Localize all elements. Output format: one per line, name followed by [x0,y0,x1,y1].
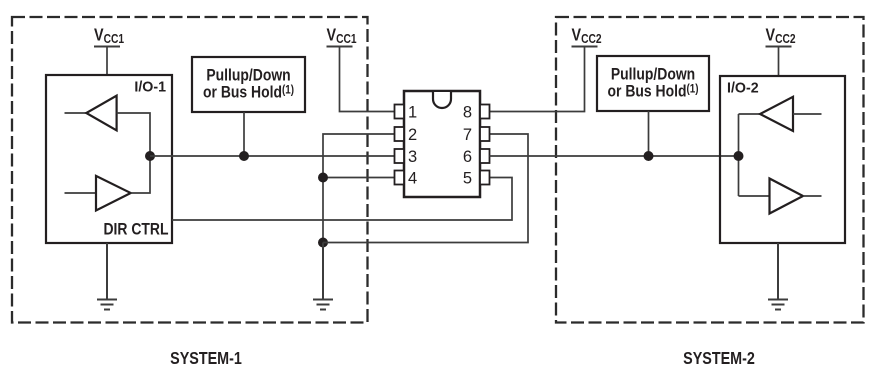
pin 3 [395,148,418,166]
wire A1 output to internal node [117,113,150,156]
ground (under I/O-2) [768,243,788,310]
node bus / pullup-2 junction dot [644,151,654,161]
pin 4 [395,170,418,188]
node pin4 junction dot [318,173,328,183]
pin 6 [463,148,490,166]
buffer A2 (driver, points right) [96,176,131,211]
power VCC2 (right, above I/O-2) [766,26,796,46]
power VCC1 (left, above I/O-1) [94,26,125,46]
pin 8 [463,104,490,122]
svg-text:5: 5 [463,170,472,188]
svg-text:6: 6 [463,148,472,166]
svg-text:VCC1: VCC1 [327,26,358,46]
svg-text:VCC2: VCC2 [572,26,602,46]
wire VCC2 to I/O-2 box [778,47,780,77]
wire A2 output to internal node [131,156,150,193]
I/O-1 block [46,75,172,243]
wire bus pin 6 to I/O-2 [490,155,739,157]
buffer A1 (receiver, points left) [86,96,116,131]
pullup/bus-hold block system-2 [597,56,709,111]
IC U1 DIP-8 body [404,91,480,197]
wire VCC1 to pin 1 [340,47,396,112]
system-1 dashed boundary [12,17,368,323]
pin 2 [395,126,418,144]
ground (under I/O-1) [97,243,117,310]
node I/O-2 junction dot [734,151,744,161]
wire B1 input stub [793,113,822,115]
I/O-2 block [720,76,845,243]
wire I/O-2 internal node rail [738,114,740,196]
wire pin 7 to control rail [323,134,528,243]
svg-text:or Bus Hold(1): or Bus Hold(1) [203,83,294,102]
svg-text:Pullup/Down: Pullup/Down [206,66,290,85]
power VCC2 (left, to pin 8) [572,26,602,46]
svg-text:1: 1 [408,104,417,122]
svg-text:I/O-2: I/O-2 [727,80,759,96]
svg-text:4: 4 [408,170,417,188]
svg-text:SYSTEM-1: SYSTEM-1 [170,350,242,369]
wire input stub of receiver A1 [65,112,88,114]
wire node to driver B1 output [739,113,761,115]
wire input stub of driver A2 [65,192,97,194]
wire VCC2 to pin 8 [490,47,585,112]
wire pullup-1 to bus [243,112,245,156]
wire bus I/O-1 to pin 3 [150,155,395,157]
pin-1 index notch [433,92,451,108]
system-2 dashed boundary [556,17,864,323]
svg-text:VCC1: VCC1 [94,26,125,46]
wire VCC1 to I/O-1 box [106,47,108,76]
wire pin 2 to control rail [323,134,395,243]
wire node to receiver B2 input [739,195,770,197]
pullup/bus-hold block system-1 [192,57,305,112]
wire pin 4 tap [323,177,395,179]
wire B2 output stub [803,195,822,197]
svg-text:SYSTEM-2: SYSTEM-2 [683,350,755,369]
svg-text:or Bus Hold(1): or Bus Hold(1) [608,82,699,101]
pin 5 [463,170,490,188]
ground (control rail) [313,243,333,310]
svg-text:3: 3 [408,148,417,166]
buffer B2 (receiver, points right) [770,179,804,214]
svg-text:I/O-1: I/O-1 [134,79,166,95]
svg-text:VCC2: VCC2 [766,26,796,46]
svg-text:7: 7 [463,126,472,144]
svg-text:8: 8 [463,104,472,122]
svg-text:DIR CTRL: DIR CTRL [104,220,169,239]
pin 7 [463,126,490,144]
buffer B1 (driver, points left) [760,97,793,131]
node bus / pullup-1 junction dot [239,151,249,161]
wire pullup-2 to bus [648,111,650,156]
svg-text:Pullup/Down: Pullup/Down [611,65,695,84]
wire DIR CTRL to pin 5 [172,178,512,221]
power VCC1 (second, to pin 1) [327,26,358,46]
node I/O-1 junction dot [145,151,155,161]
node pin7 rail junction dot [318,238,328,248]
svg-text:2: 2 [408,126,417,144]
pin 1 [395,104,418,122]
